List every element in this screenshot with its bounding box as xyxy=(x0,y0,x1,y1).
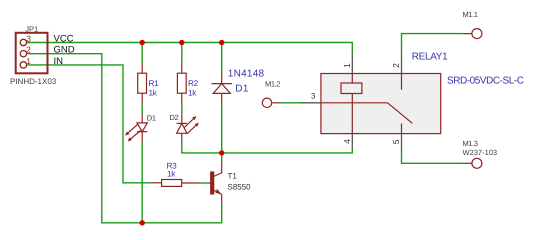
svg-text:M1.3: M1.3 xyxy=(463,139,478,148)
svg-text:GND: GND xyxy=(54,45,75,56)
terminal M1.1 xyxy=(464,29,482,39)
wire LED D1 to GND rail xyxy=(141,143,143,223)
wire relay pin2 to M1.1 xyxy=(402,34,464,54)
resistor R2 xyxy=(177,63,186,104)
LED D2 arrowheads xyxy=(192,116,196,120)
wire relay pin5 to M1.3 xyxy=(402,152,464,163)
svg-text:R1: R1 xyxy=(149,79,160,88)
junction dot VCC/R1 xyxy=(140,40,145,45)
svg-text:1: 1 xyxy=(342,63,352,68)
svg-text:PINHD-1X03: PINHD-1X03 xyxy=(10,77,57,86)
wire IN net xyxy=(27,65,152,183)
svg-text:2: 2 xyxy=(26,45,31,55)
junction dot VCC/R2 xyxy=(179,40,184,45)
svg-text:1N4148: 1N4148 xyxy=(228,69,265,80)
relay pin 5 xyxy=(401,134,403,153)
svg-text:5: 5 xyxy=(391,139,401,144)
wire R2 branch top xyxy=(181,43,183,63)
svg-text:SRD-05VDC-SL-C: SRD-05VDC-SL-C xyxy=(447,75,524,86)
wire R3 to base xyxy=(200,182,208,184)
svg-text:D1: D1 xyxy=(235,83,249,94)
transistor T1 emitter arrow xyxy=(215,189,221,194)
svg-text:1k: 1k xyxy=(167,170,176,179)
svg-text:2: 2 xyxy=(391,63,401,68)
wire R1 branch top xyxy=(141,43,143,63)
transistor T1 xyxy=(208,162,222,203)
LED D1 xyxy=(128,114,148,143)
relay pin 3 xyxy=(301,102,321,104)
wire VCC rail xyxy=(27,43,352,54)
wire GND net xyxy=(27,54,222,223)
connector JP1 xyxy=(16,33,48,74)
svg-text:VCC: VCC xyxy=(54,33,74,44)
svg-text:4: 4 xyxy=(342,139,352,144)
svg-text:D1: D1 xyxy=(147,114,156,123)
junction dot GND/LED D1 xyxy=(140,220,145,225)
resistor R3 xyxy=(152,180,200,187)
relay pin 1 xyxy=(351,54,353,74)
relay RELAY1 body xyxy=(321,74,441,134)
junction dot VCC/diode xyxy=(219,40,224,45)
svg-text:JP1: JP1 xyxy=(25,24,38,33)
terminal M1.2 xyxy=(262,98,280,107)
resistor R1 xyxy=(138,63,147,104)
wire R2 to LED D2 xyxy=(181,104,183,115)
diode D1 1N4148 xyxy=(212,74,232,104)
junction dot collector node xyxy=(219,150,224,155)
svg-text:3: 3 xyxy=(311,92,316,101)
relay coil xyxy=(341,74,362,134)
wire M1.2 to relay pin3 xyxy=(280,102,301,104)
svg-text:S8550: S8550 xyxy=(228,183,252,192)
svg-text:R2: R2 xyxy=(188,79,199,88)
svg-text:M1.1: M1.1 xyxy=(463,10,478,19)
relay pin 4 xyxy=(351,134,353,148)
terminal M1.3 xyxy=(464,158,482,168)
LED D1 arrowheads xyxy=(125,131,129,135)
svg-text:RELAY1: RELAY1 xyxy=(412,52,448,63)
relay contact xyxy=(321,74,413,134)
svg-text:M1.2: M1.2 xyxy=(265,79,280,88)
svg-text:D2: D2 xyxy=(170,113,179,122)
svg-text:1k: 1k xyxy=(188,89,197,98)
svg-text:1: 1 xyxy=(26,56,31,66)
svg-text:1k: 1k xyxy=(149,89,158,98)
wire R1 to LED D1 xyxy=(141,104,143,115)
LED D2 xyxy=(177,114,197,139)
svg-text:T1: T1 xyxy=(228,172,238,181)
svg-text:3: 3 xyxy=(26,34,31,44)
wire LED D2 to coil node xyxy=(182,140,352,153)
relay pin 2 xyxy=(401,54,403,74)
svg-text:W237-103: W237-103 xyxy=(463,148,498,157)
wire diode branch top xyxy=(221,43,223,75)
svg-text:IN: IN xyxy=(54,56,64,67)
wire diode to collector node xyxy=(221,104,223,162)
